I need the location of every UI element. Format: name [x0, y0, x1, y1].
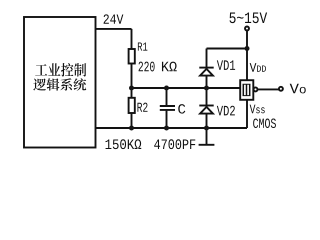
label R1 [138, 43, 147, 51]
junction dot VD mid node [204, 86, 209, 91]
label C [178, 104, 185, 114]
junction dot node A / R1-R2 [129, 86, 134, 91]
label 150KOhm [105, 139, 141, 149]
capacitor C bottom lead [166, 111, 168, 128]
diode VD1 cathode bar [199, 67, 213, 69]
wire: 5~15V terminal down to junction [246, 31, 248, 49]
text: industrial control logic system line 1 [35, 63, 86, 77]
label CMOS [253, 119, 276, 129]
wire: bottom rail [96, 127, 248, 129]
wire from box to 24V rail [96, 28, 132, 30]
wire R2 to bottom rail [131, 113, 133, 128]
label VD2 [217, 106, 235, 116]
terminal circle 5~15V [245, 27, 249, 31]
label 220 KOhm [139, 62, 177, 72]
label VDD [250, 63, 266, 72]
label 24V [104, 14, 124, 23]
diode VD2 anode lead [206, 88, 208, 105]
label R2 [137, 103, 147, 112]
label 4700PF [154, 139, 195, 149]
wire: VDD pin [246, 49, 248, 81]
wire node A to R2 [131, 88, 133, 98]
IC U1 body (CMOS gate box) [240, 80, 253, 100]
junction dot C bottom [164, 126, 169, 131]
junction dot C top [164, 86, 169, 91]
inverter bubble [254, 87, 258, 91]
wire: junction to VD1 top [207, 48, 248, 50]
junction dot supply node [245, 46, 250, 51]
text: industrial control logic system line 2 [33, 78, 86, 90]
wire VD2 to bottom rail [206, 114, 208, 128]
wire R1 to node A [131, 64, 133, 89]
resistor R2 [129, 98, 135, 113]
capacitor C top lead [166, 88, 168, 105]
ground bar [199, 144, 215, 146]
diode VD1 triangle [200, 69, 213, 76]
capacitor C plates [160, 106, 175, 110]
ground stub [206, 128, 208, 145]
diode VD1 cathode lead [206, 49, 208, 68]
wire: mid rail, node A to IC input [132, 87, 241, 89]
label VD1 [217, 60, 235, 70]
junction dot R2 bottom [129, 126, 134, 131]
diode VD2 cathode bar [199, 105, 213, 107]
diode VD2 triangle [200, 107, 213, 114]
wire: output [258, 88, 279, 90]
wire VD1 to node A [206, 76, 208, 88]
resistor R1 [129, 49, 135, 64]
label Vss [250, 105, 265, 114]
box: industrial control logic system [24, 17, 96, 148]
wire: bottom rail up to Vss pin [246, 100, 248, 128]
junction dot ground node [204, 126, 209, 131]
label Vo [290, 84, 306, 94]
gate symbol III [243, 84, 251, 95]
terminal circle Vo [279, 87, 283, 91]
label 5~15V [230, 12, 268, 23]
wire: 24V rail down to R1 [131, 29, 133, 49]
